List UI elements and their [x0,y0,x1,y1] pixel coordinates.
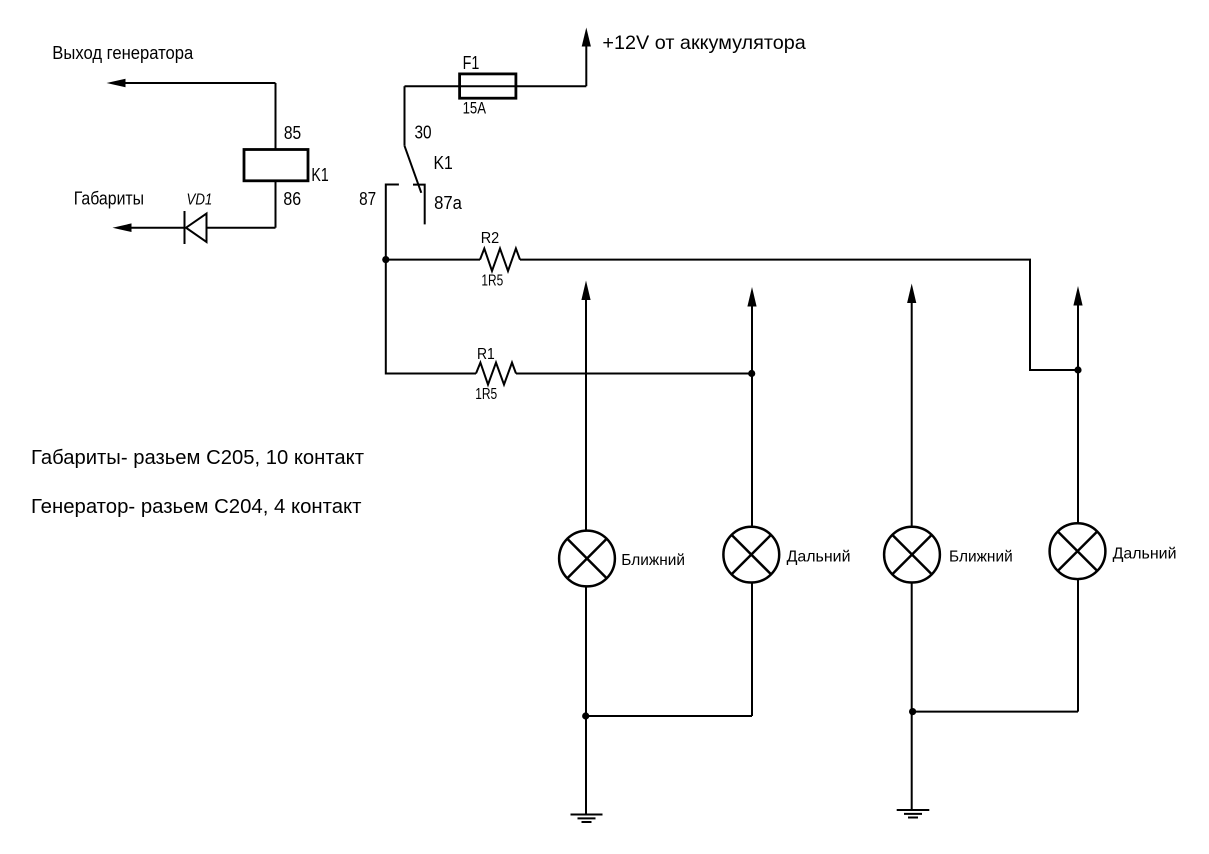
svg-text:1R5: 1R5 [475,386,497,403]
svg-text:R2: R2 [481,230,500,247]
junction: node 87 / R2 / R1 [382,256,389,263]
svg-text:Выход генератора: Выход генератора [52,43,194,63]
arrow: lamp 2 feed up arrowhead [747,287,756,307]
wire: contact 30 vertical [404,86,406,146]
wire: relay coil pin 85 vertical [275,83,277,150]
terminal 87a hook [413,185,425,225]
svg-text:Габариты: Габариты [74,189,144,209]
wire: lamp 1 to ground [585,586,587,814]
wire: R2 output to lamp 4 line [520,260,1078,370]
wire: diode to Габариты [130,227,185,229]
svg-text:1R5: 1R5 [481,273,503,290]
svg-text:K1: K1 [311,165,328,185]
wire: R1 to lamp 2 line [516,373,752,375]
wire: ground link lamp3-lamp4 [913,711,1078,713]
arrow: generator output left arrowhead [107,79,126,88]
arrow: +12V up arrowhead [582,28,591,47]
wire: node to R2 [386,259,480,261]
svg-text:Дальний: Дальний [787,549,851,566]
wire: node down to R1 [386,260,476,374]
svg-text:+12V от аккумулятора: +12V от аккумулятора [602,32,806,54]
lamp 2 Дальний [723,527,779,583]
arrow: lamp 4 feed up arrowhead [1073,286,1082,306]
switch K1 blade (relay contact) [405,146,422,193]
svg-text:Габариты- разьем С205, 10 конт: Габариты- разьем С205, 10 контакт [31,447,364,469]
wire: lamp 2 feed vertical [751,303,753,527]
svg-text:15A: 15A [463,99,487,118]
junction: lamp 3 / lamp 4 ground node [909,708,916,715]
wire: battery feed horizontal into fuse [405,85,587,87]
wire: lamp 1 feed vertical [585,297,587,531]
ground (right) [897,810,930,818]
terminal 87 tick [386,185,399,260]
resistor R1 [476,363,516,385]
wire: lamp 3 to ground [911,582,913,810]
svg-text:Ближний: Ближний [621,552,685,569]
svg-text:F1: F1 [463,53,480,73]
svg-text:30: 30 [415,123,432,143]
relay coil K1 [244,150,308,181]
svg-text:87a: 87a [434,193,463,213]
wire: lamp 3 feed vertical [911,300,913,527]
junction: R1 output on lamp 2 line [748,370,755,377]
wire: generator output horizontal [124,82,276,84]
svg-text:Генератор- разьем С204, 4 конт: Генератор- разьем С204, 4 контакт [31,496,362,518]
svg-text:Ближний: Ближний [949,549,1013,566]
arrow: Габариты left arrowhead [113,223,132,232]
wire: +12V riser vertical [585,44,587,86]
junction: lamp 1 / lamp 2 ground node [582,712,589,719]
wire: relay coil pin 86 vertical [275,181,277,228]
arrow: lamp 3 feed up arrowhead [907,284,916,304]
wire: pin 86 to diode [207,227,276,229]
resistor R2 [480,249,520,272]
ground (left) [571,815,603,823]
fuse F1 [460,74,516,98]
svg-text:85: 85 [284,123,301,143]
svg-text:R1: R1 [477,346,495,363]
wire: lamp 4 down to ground link [1077,579,1079,712]
arrow: lamp 1 feed up arrowhead [581,281,590,301]
svg-text:86: 86 [283,189,301,209]
svg-text:K1: K1 [434,153,453,173]
wire: lamp 2 down to ground link [751,582,753,716]
lamp 1 Ближний [559,531,615,587]
lamp 4 Дальний [1050,523,1106,579]
svg-text:87: 87 [359,189,376,209]
junction: R2 output on lamp 4 line [1074,366,1081,373]
wire: lamp 4 feed vertical [1077,302,1079,523]
diode VD1 [186,214,207,243]
svg-text:Дальний: Дальний [1113,546,1177,563]
svg-text:VD1: VD1 [187,192,213,209]
wire: ground link lamp1-lamp2 [586,715,752,717]
lamp 3 Ближний [884,527,940,583]
